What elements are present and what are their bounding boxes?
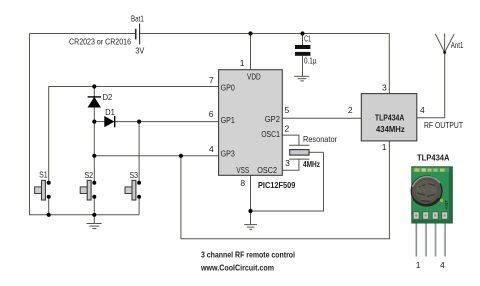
svg-text:S1: S1 [39,169,48,179]
svg-text:GP2: GP2 [265,114,280,124]
svg-text:D1: D1 [105,107,115,117]
svg-text:GP0: GP0 [221,82,235,92]
svg-text:7: 7 [209,75,214,85]
svg-text:www.CoolCircuit.com: www.CoolCircuit.com [200,263,274,273]
svg-text:8: 8 [240,178,245,188]
svg-text:CR2023 or CR2016: CR2023 or CR2016 [69,36,131,46]
svg-text:4: 4 [420,105,425,115]
svg-text:4MHz: 4MHz [303,159,320,169]
svg-text:4: 4 [440,260,445,270]
svg-text:1: 1 [416,260,421,270]
svg-text:5: 5 [285,105,290,115]
svg-text:4: 4 [209,144,214,154]
svg-text:1: 1 [240,58,245,68]
svg-text:6: 6 [209,109,214,119]
svg-text:S3: S3 [130,170,139,180]
svg-text:2: 2 [285,124,290,134]
svg-text:TLP434A: TLP434A [417,152,450,162]
svg-text:3 channel RF remote control: 3 channel RF remote control [201,249,295,259]
svg-text:0.1µ: 0.1µ [304,55,317,65]
svg-text:ANT: ANT [444,200,450,210]
svg-text:GP1: GP1 [221,115,235,125]
svg-text:VDD: VDD [247,71,261,81]
svg-text:Resonator: Resonator [303,134,337,144]
svg-text:PIC12F509: PIC12F509 [258,180,296,190]
svg-text:OSC1: OSC1 [261,129,280,139]
svg-text:C1: C1 [304,34,311,44]
svg-text:S2: S2 [85,170,94,180]
svg-text:OSC2: OSC2 [257,165,277,175]
svg-text:3V: 3V [135,45,144,55]
svg-text:RF OUTPUT: RF OUTPUT [424,120,463,130]
svg-text:434MHz: 434MHz [376,124,405,134]
svg-text:3: 3 [285,158,290,168]
svg-text:1: 1 [382,142,387,152]
svg-text:TLP434A: TLP434A [375,112,404,122]
svg-text:Bat1: Bat1 [131,13,144,23]
svg-text:3: 3 [382,82,387,92]
svg-text:VSS: VSS [236,165,249,175]
svg-text:2: 2 [348,105,353,115]
svg-text:D2: D2 [103,92,113,102]
svg-text:Ant1: Ant1 [451,40,464,50]
svg-text:GP3: GP3 [221,148,235,158]
